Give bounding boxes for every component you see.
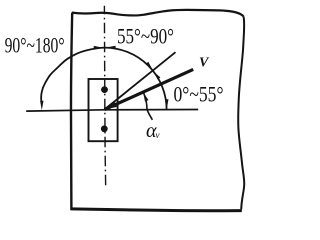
alpha-v arc arrowhead (points up-left at V line) bbox=[143, 93, 148, 102]
arrowhead above 55deg line (points down-right) bbox=[146, 62, 153, 70]
horizontal reference line bbox=[26, 110, 198, 112]
svg-text:0°~55°: 0°~55° bbox=[174, 82, 224, 107]
velocity vector V (thick line) bbox=[105, 69, 194, 109]
arrowhead at 0deg end (points down onto horizontal line) bbox=[165, 99, 168, 109]
arrowhead left of centerline (points right) bbox=[94, 46, 103, 49]
vertical centerline (dash-dot) bbox=[104, 6, 105, 189]
arc 90deg-180deg (left, freehand) bbox=[41, 48, 104, 102]
alpha-v leader line bbox=[147, 110, 152, 120]
arrowhead right of centerline (points left) bbox=[107, 46, 116, 49]
svg-text:v: v bbox=[156, 130, 160, 140]
plate left edge bbox=[71, 13, 72, 211]
velocity vector arrowhead (points at centre) bbox=[103, 101, 117, 110]
plate bottom edge (break line) bbox=[71, 209, 242, 211]
alpha-v angle arc bbox=[144, 93, 148, 110]
hole group rectangle bbox=[89, 79, 118, 141]
hole dot bottom bbox=[101, 125, 108, 132]
plate top edge bbox=[72, 10, 244, 17]
arc 55deg-90deg and 0deg-55deg (right half circle) bbox=[105, 48, 167, 110]
arrowhead at 180deg end (points down onto horizontal line) bbox=[40, 101, 43, 111]
svg-text:90°~180°: 90°~180° bbox=[5, 33, 65, 58]
svg-text:55°~90°: 55°~90° bbox=[117, 24, 174, 49]
55deg boundary line bbox=[105, 52, 176, 109]
plate right edge (break line) bbox=[238, 17, 244, 210]
hole dot top bbox=[101, 86, 108, 93]
arrowhead below 55deg line (points up-left) bbox=[153, 72, 160, 80]
